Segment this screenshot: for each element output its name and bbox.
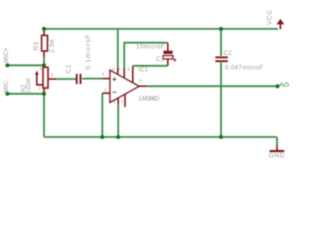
svg-text:A0: A0 xyxy=(279,82,290,89)
svg-text:VCC: VCC xyxy=(267,10,274,26)
svg-text:MIC-: MIC- xyxy=(4,79,10,93)
svg-text:3: 3 xyxy=(39,66,42,71)
svg-text:0.047microF: 0.047microF xyxy=(225,66,263,72)
svg-text:IC1: IC1 xyxy=(139,67,149,73)
svg-text:7: 7 xyxy=(121,100,124,105)
svg-text:8: 8 xyxy=(127,67,130,72)
svg-text:R3: R3 xyxy=(34,41,40,50)
svg-text:1: 1 xyxy=(38,86,41,91)
svg-text:100K: 100K xyxy=(27,78,33,94)
svg-text:0.1microF: 0.1microF xyxy=(86,34,92,69)
svg-text:5: 5 xyxy=(139,78,142,83)
svg-text:3: 3 xyxy=(102,72,105,77)
svg-text:GND: GND xyxy=(269,153,285,160)
svg-text:1: 1 xyxy=(118,66,121,71)
svg-text:C1: C1 xyxy=(67,64,73,73)
svg-text:4: 4 xyxy=(113,100,116,105)
svg-text:MIC+: MIC+ xyxy=(4,47,10,62)
svg-text:C3: C3 xyxy=(156,57,164,63)
svg-text:6: 6 xyxy=(112,66,115,71)
svg-text:C2: C2 xyxy=(224,51,233,57)
svg-text:2: 2 xyxy=(104,88,107,93)
svg-text:LM386D: LM386D xyxy=(139,97,160,103)
svg-text:2.5K: 2.5K xyxy=(50,39,56,53)
svg-text:2: 2 xyxy=(51,72,54,77)
svg-text:10microF: 10microF xyxy=(136,45,165,51)
